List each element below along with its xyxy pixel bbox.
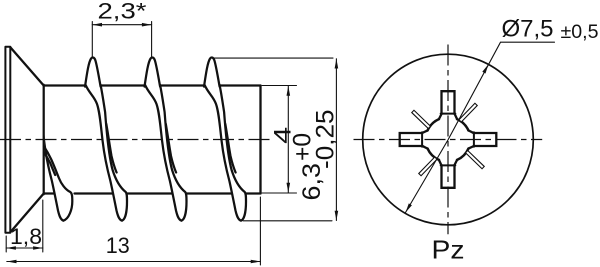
- dimension 13: left arrowhead: [7, 260, 17, 264]
- dimension 4: top arrowhead: [287, 86, 291, 96]
- screw head flat face: [5, 47, 10, 233]
- thread crest band line: [106, 124, 116, 173]
- svg-text:Pz: Pz: [432, 234, 465, 264]
- dimension 2,3: right arrowhead: [142, 23, 152, 27]
- pozidriv arm end bar: [441, 113, 456, 115]
- dimension 2,3: extension line left: [91, 22, 93, 58]
- svg-text:-0,25: -0,25: [312, 110, 340, 170]
- screw head circle (front view): [363, 54, 534, 225]
- dimension 4: dimension line: [287, 86, 289, 193]
- thread turn 3 (crest x=211.4): [204, 57, 246, 220]
- diameter leader line: [406, 42, 555, 212]
- dimension 13: dimension line: [7, 261, 261, 263]
- body top outline: [44, 84, 261, 86]
- thread flank line front: [86, 85, 122, 221]
- front view horizontal centerline: [354, 139, 543, 141]
- thread crest outline: [85, 57, 101, 86]
- flank line back (turn 0): [44, 147, 72, 221]
- front view vertical centerline: [447, 45, 449, 235]
- dimension 4: extension line bottom: [262, 192, 297, 194]
- dimension 2,3: extension line right: [151, 22, 153, 58]
- thread flank line back: [220, 85, 246, 221]
- thread flank line back: [101, 85, 127, 221]
- dimension 6,3: extension line bottom: [243, 220, 332, 222]
- head cone lower flank: [10, 194, 43, 233]
- dimension 1,8: left arrowhead: [6, 246, 16, 250]
- thread crest band line: [225, 124, 235, 173]
- dimension 1,8: right arrowhead: [33, 246, 43, 250]
- dimension 4: extension line top: [262, 85, 297, 87]
- dimension 13: right arrowhead: [251, 260, 261, 264]
- svg-text:1,8: 1,8: [10, 224, 42, 249]
- dimension 6,3: bottom arrowhead: [335, 211, 339, 221]
- dimension 2,3: dimension line: [92, 24, 151, 26]
- pozidriv recess quadrant: top arm, end bar, flares, upper-right arc, 45deg tick: [441, 91, 478, 133]
- thread crest outline: [145, 57, 161, 86]
- diameter leader upper arrowhead: [482, 64, 488, 73]
- thread crest outline: [204, 57, 220, 86]
- thread flank line front: [145, 85, 181, 221]
- flank line front (turn 0): [42, 124, 63, 221]
- crest band line (turn 0): [44, 153, 55, 176]
- dimension 6,3: extension line top: [214, 57, 333, 59]
- pozidriv wing tick (upper-right): [459, 103, 477, 122]
- svg-text:2,3*: 2,3*: [98, 0, 148, 23]
- dimension 1,8: dimension line: [6, 247, 43, 249]
- pozidriv recess quadrant rotated 90 (right arm): [454, 132, 496, 169]
- pozidriv recess quadrant rotated 180 (bottom arm): [419, 146, 456, 188]
- thread turn 1 (crest x=92.4): [85, 57, 127, 220]
- pozidriv flare (top arm right): [455, 114, 458, 120]
- dimension 6,3: top arrowhead: [335, 59, 339, 69]
- svg-text:±0,5: ±0,5: [561, 21, 599, 43]
- diameter leader lower arrowhead: [406, 203, 412, 212]
- pozidriv flare (right arm top): [468, 130, 474, 133]
- body bottom outline: [44, 192, 261, 194]
- dimension 1,8: extension line left: [5, 236, 7, 252]
- thread crest band line: [166, 124, 176, 173]
- dimension 13: extension line right: [259, 197, 261, 265]
- dimension 1,8: extension line right: [42, 200, 44, 252]
- thread turn 2 (crest x=151.9): [145, 57, 187, 220]
- thread turn 0 (partial at cone junction): [42, 124, 63, 221]
- pozidriv centre circle arc (upper-right): [457, 119, 468, 130]
- thread flank line back: [160, 85, 186, 221]
- dimension 4: bottom arrowhead: [287, 183, 291, 193]
- dimension 6,3: dimension line: [335, 59, 337, 221]
- head cone upper flank: [10, 47, 43, 85]
- thread flank line front: [205, 85, 241, 221]
- pozidriv recess quadrant rotated 270 (left arm): [400, 110, 442, 147]
- cone-body junction line: [43, 85, 45, 194]
- screw tip end face: [259, 86, 261, 194]
- svg-text:13: 13: [106, 233, 130, 258]
- centerline of side view: [0, 139, 272, 141]
- dimension 2,3: left arrowhead: [92, 23, 102, 27]
- svg-text:Ø7,5: Ø7,5: [502, 16, 554, 43]
- pozidriv arm (top): [442, 91, 455, 114]
